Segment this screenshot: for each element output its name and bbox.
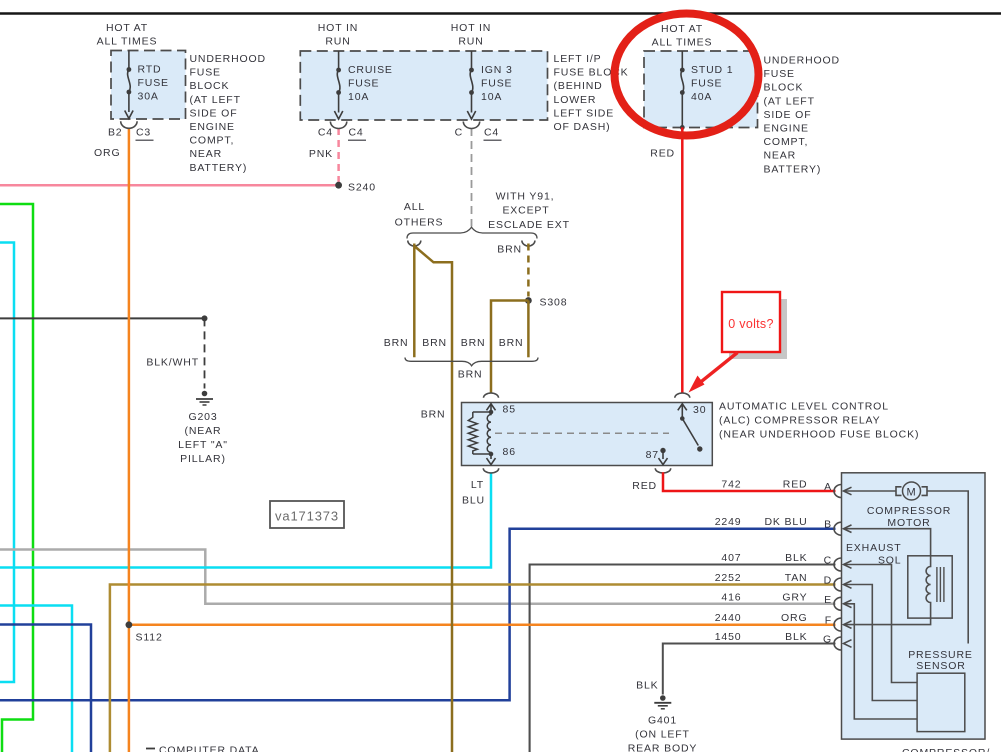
compressor pin D connector xyxy=(834,578,841,591)
wire BRN dashed to S308 xyxy=(527,244,530,297)
connector C4 / C4 xyxy=(330,122,346,129)
svg-text:HOT IN: HOT IN xyxy=(451,22,492,34)
svg-text:RED: RED xyxy=(650,148,675,160)
svg-text:86: 86 xyxy=(503,446,516,458)
svg-text:UNDERHOOD: UNDERHOOD xyxy=(764,55,841,67)
fuse block box UNDERHOOD left (RTD fuse) xyxy=(111,51,186,120)
svg-text:G203: G203 xyxy=(188,411,217,423)
brace split ALL OTHERS / WITH Y91 xyxy=(407,227,537,238)
connector C / C4 xyxy=(463,122,479,129)
wire dashed below IGN 3 fuse xyxy=(471,128,473,227)
svg-text:FUSE: FUSE xyxy=(190,67,221,79)
svg-text:BLK/WHT: BLK/WHT xyxy=(146,357,199,369)
connector arc below relay pin 86 xyxy=(483,468,498,473)
svg-text:742: 742 xyxy=(721,479,741,491)
svg-text:(NEAR UNDERHOOD FUSE BLOCK): (NEAR UNDERHOOD FUSE BLOCK) xyxy=(719,429,919,441)
svg-text:LEFT I/P: LEFT I/P xyxy=(554,53,602,65)
relay switch blade xyxy=(680,416,685,421)
svg-text:E: E xyxy=(824,594,832,606)
svg-text:EXCEPT: EXCEPT xyxy=(502,205,549,217)
compressor box xyxy=(842,473,986,739)
svg-text:DK BLU: DK BLU xyxy=(764,516,807,528)
svg-text:IGN 3: IGN 3 xyxy=(481,64,513,76)
svg-text:B: B xyxy=(824,519,832,531)
svg-text:RED: RED xyxy=(632,480,657,492)
wire ORG main vertical from fuse RTD xyxy=(128,128,131,752)
wire RED 742 from relay pin 87 to compressor pin A xyxy=(663,472,836,491)
svg-text:OF DASH): OF DASH) xyxy=(554,121,611,133)
svg-text:BRN: BRN xyxy=(461,337,486,349)
exhaust solenoid coil xyxy=(926,556,930,618)
svg-text:ALL: ALL xyxy=(404,201,425,213)
svg-text:COMPT,: COMPT, xyxy=(190,135,235,147)
relay box ALC compressor relay xyxy=(462,403,713,466)
node S240 xyxy=(335,182,342,189)
svg-text:(ALC) COMPRESSOR RELAY: (ALC) COMPRESSOR RELAY xyxy=(719,415,880,427)
relay linkage dashed xyxy=(495,432,669,434)
relay pin 87 xyxy=(660,448,665,453)
wire RED from STUD 1 fuse to relay pin 30 xyxy=(681,127,684,393)
svg-text:EXHAUST: EXHAUST xyxy=(846,542,902,554)
svg-text:OTHERS: OTHERS xyxy=(395,217,444,229)
node dot BLK/G203 xyxy=(202,315,208,321)
exhaust solenoid box xyxy=(908,556,952,618)
svg-text:COMPRESSOR: COMPRESSOR xyxy=(867,505,951,517)
fuse CRUISE FUSE 10A xyxy=(338,51,340,70)
connector arc ALL OTHERS branch xyxy=(408,241,421,247)
svg-text:BLOCK: BLOCK xyxy=(190,80,230,92)
svg-text:BRN: BRN xyxy=(421,409,446,421)
compressor pin A connector xyxy=(834,485,841,498)
svg-text:2249: 2249 xyxy=(715,516,742,528)
svg-text:40A: 40A xyxy=(691,91,712,103)
svg-text:SIDE OF: SIDE OF xyxy=(764,109,812,121)
red highlight circle around STUD 1 fuse xyxy=(615,14,759,136)
svg-text:BATTERY): BATTERY) xyxy=(190,162,248,174)
svg-text:D: D xyxy=(824,575,832,587)
svg-text:BRN: BRN xyxy=(384,337,409,349)
svg-text:HOT IN: HOT IN xyxy=(318,22,359,34)
svg-text:M: M xyxy=(906,486,916,498)
annotation arrow to relay pin 30 xyxy=(697,353,738,386)
svg-text:87: 87 xyxy=(646,449,659,461)
svg-text:MOTOR: MOTOR xyxy=(887,517,930,529)
svg-text:C4: C4 xyxy=(349,127,364,139)
svg-text:BRN: BRN xyxy=(497,244,522,256)
fuse block box UNDERHOOD right (STUD 1 fuse) xyxy=(644,51,758,128)
svg-text:LEFT "A": LEFT "A" xyxy=(178,439,228,451)
svg-text:BRN: BRN xyxy=(458,369,483,381)
wire BRN S308 branch to relay pin 85 xyxy=(491,301,528,394)
svg-text:UNDERHOOD: UNDERHOOD xyxy=(190,53,267,65)
relay coil with resistor xyxy=(489,410,494,415)
wire GRN left loop xyxy=(0,204,33,752)
svg-text:ALL TIMES: ALL TIMES xyxy=(652,37,713,49)
wire CYAN lower left xyxy=(0,606,72,752)
wire pin B to exhaust solenoid xyxy=(844,529,931,556)
svg-text:A: A xyxy=(824,481,832,493)
svg-text:2252: 2252 xyxy=(715,572,742,584)
label COMPUTER DATA (bottom, clipped) xyxy=(146,748,155,750)
svg-text:HOT AT: HOT AT xyxy=(661,23,703,35)
wire BRN below S308 xyxy=(527,301,530,358)
connector arc below relay pin 87 xyxy=(655,468,670,473)
svg-text:2440: 2440 xyxy=(715,612,742,624)
brace merge BRN xyxy=(405,358,538,366)
svg-text:FUSE: FUSE xyxy=(691,78,722,90)
svg-text:10A: 10A xyxy=(348,91,369,103)
frame top border xyxy=(0,12,1001,15)
svg-text:SIDE OF: SIDE OF xyxy=(190,107,238,119)
wire pin C to pressure sensor xyxy=(844,565,917,683)
stamp box va171373 xyxy=(270,501,344,528)
svg-text:BATTERY): BATTERY) xyxy=(764,163,822,175)
svg-text:F: F xyxy=(825,615,832,627)
svg-text:BRN: BRN xyxy=(422,337,447,349)
svg-text:REAR BODY: REAR BODY xyxy=(628,743,698,752)
node S112 xyxy=(125,621,132,628)
svg-text:AUTOMATIC LEVEL CONTROL: AUTOMATIC LEVEL CONTROL xyxy=(719,401,889,413)
svg-text:ALL TIMES: ALL TIMES xyxy=(97,36,158,48)
svg-text:BLOCK: BLOCK xyxy=(764,82,804,94)
wire BLK/WHT dashed to G203 xyxy=(204,318,206,388)
svg-text:BLK: BLK xyxy=(785,631,807,643)
svg-text:G401: G401 xyxy=(648,715,677,727)
svg-text:COMPRESSOR/: COMPRESSOR/ xyxy=(902,747,990,752)
svg-text:30: 30 xyxy=(693,404,706,416)
wire BLK to G203 junction xyxy=(0,317,205,319)
svg-text:(ON LEFT: (ON LEFT xyxy=(635,729,690,741)
wire PNK dashed below CRUISE fuse xyxy=(337,128,340,183)
svg-text:RUN: RUN xyxy=(458,36,483,48)
relay pin 30 arrow xyxy=(681,404,683,417)
svg-text:C4: C4 xyxy=(484,127,499,139)
wire DK BLU left lower xyxy=(0,625,91,752)
connector arc WITH Y91 branch xyxy=(522,241,535,247)
relay pin 86 arrow xyxy=(490,454,492,459)
wire LT BLU from relay pin 86 to left edge xyxy=(0,472,491,567)
svg-text:ESCLADE EXT: ESCLADE EXT xyxy=(488,219,570,231)
svg-text:416: 416 xyxy=(721,591,741,603)
connector arc relay pin 30 xyxy=(675,393,690,398)
annotation box 0 volts? xyxy=(729,299,787,359)
wire motor to pin G xyxy=(928,491,969,644)
svg-text:ORG: ORG xyxy=(781,612,807,624)
svg-text:C: C xyxy=(824,555,832,567)
wire BRN all-others vertical 1 xyxy=(413,244,416,358)
fuse STUD 1 FUSE 40A xyxy=(681,51,683,70)
relay pin 85 arrow xyxy=(490,404,492,411)
svg-text:S112: S112 xyxy=(136,632,163,644)
svg-text:B2: B2 xyxy=(108,127,123,139)
wire solenoid to pin F xyxy=(844,618,931,625)
compressor pin B connector xyxy=(834,522,841,535)
ground G203 xyxy=(202,391,208,397)
svg-text:407: 407 xyxy=(721,552,741,564)
svg-text:RED: RED xyxy=(783,479,808,491)
wire GRY 416 from left edge to compressor pin E xyxy=(0,550,836,604)
wire pin E to pressure sensor xyxy=(844,604,917,719)
svg-text:1450: 1450 xyxy=(715,631,742,643)
svg-text:(AT LEFT: (AT LEFT xyxy=(190,94,241,106)
svg-text:30A: 30A xyxy=(138,91,159,103)
wire pin D to pressure sensor xyxy=(844,585,917,701)
svg-text:LT: LT xyxy=(471,479,484,491)
svg-text:BLK: BLK xyxy=(636,680,658,692)
svg-text:WITH Y91,: WITH Y91, xyxy=(496,191,555,203)
svg-text:0 volts?: 0 volts? xyxy=(728,317,773,331)
svg-text:NEAR: NEAR xyxy=(190,148,223,160)
svg-text:C3: C3 xyxy=(136,127,151,139)
compressor pin C connector xyxy=(834,558,841,571)
svg-text:COMPUTER DATA: COMPUTER DATA xyxy=(159,745,260,752)
compressor motor M symbol xyxy=(903,482,921,500)
svg-text:CRUISE: CRUISE xyxy=(348,64,393,76)
svg-text:ORG: ORG xyxy=(94,147,120,159)
svg-text:(NEAR: (NEAR xyxy=(185,425,222,437)
ground G401 xyxy=(660,695,666,701)
compressor pin G connector xyxy=(834,637,841,650)
svg-text:GRY: GRY xyxy=(782,591,807,603)
svg-text:BLK: BLK xyxy=(785,552,807,564)
svg-text:85: 85 xyxy=(503,404,516,416)
svg-text:SENSOR: SENSOR xyxy=(916,660,965,672)
svg-text:S240: S240 xyxy=(348,182,376,194)
svg-text:COMPT,: COMPT, xyxy=(764,136,809,148)
svg-text:(BEHIND: (BEHIND xyxy=(554,80,603,92)
svg-text:FUSE: FUSE xyxy=(481,78,512,90)
svg-text:va171373: va171373 xyxy=(275,509,339,524)
svg-text:C4: C4 xyxy=(318,127,333,139)
connector arc relay pin 85 xyxy=(484,393,499,398)
svg-text:BLU: BLU xyxy=(462,495,485,507)
svg-text:FUSE: FUSE xyxy=(764,68,795,80)
svg-text:C: C xyxy=(455,127,463,139)
wire ORG 2440 branch to compressor pin F xyxy=(129,624,836,627)
wire motor to pin A xyxy=(844,490,896,492)
svg-text:(AT LEFT: (AT LEFT xyxy=(764,95,815,107)
fuse IGN 3 FUSE 10A xyxy=(471,51,473,70)
svg-text:ENGINE: ENGINE xyxy=(190,121,235,133)
fuse RTD FUSE 30A xyxy=(128,51,130,70)
wire DK BLU 2249 from compressor pin B xyxy=(0,529,836,701)
connector B2 / C3 xyxy=(121,121,137,128)
svg-text:PILLAR): PILLAR) xyxy=(180,453,226,465)
svg-text:10A: 10A xyxy=(481,91,502,103)
node S308 xyxy=(525,297,532,304)
svg-text:FUSE: FUSE xyxy=(348,78,379,90)
svg-text:FUSE: FUSE xyxy=(138,77,169,89)
svg-text:TAN: TAN xyxy=(785,572,808,584)
svg-text:S308: S308 xyxy=(540,297,568,309)
pressure sensor box xyxy=(917,673,965,731)
svg-text:LEFT SIDE: LEFT SIDE xyxy=(554,107,615,119)
svg-text:ENGINE: ENGINE xyxy=(764,123,809,135)
compressor pin E connector xyxy=(834,597,841,610)
svg-text:HOT AT: HOT AT xyxy=(106,22,148,34)
fuse block box LEFT I/P (CRUISE + IGN 3 fuses) xyxy=(300,51,547,120)
wire BLK 407 from compressor pin C xyxy=(530,565,836,752)
wire BRN all-others branch 2 (diagonal) xyxy=(414,246,452,752)
svg-text:RTD: RTD xyxy=(138,64,162,76)
svg-text:LOWER: LOWER xyxy=(554,94,597,106)
wire CYAN left upper loop xyxy=(0,243,14,683)
wire BLK 1450 from compressor pin G to G401 xyxy=(663,644,836,695)
wire TAN 2252 from compressor pin D xyxy=(110,585,836,752)
svg-text:PNK: PNK xyxy=(309,148,333,160)
svg-text:NEAR: NEAR xyxy=(764,150,797,162)
compressor pin F connector xyxy=(834,618,841,631)
svg-text:RUN: RUN xyxy=(325,36,350,48)
wire PNK horizontal to S240 xyxy=(0,184,339,187)
svg-text:BRN: BRN xyxy=(499,337,524,349)
svg-text:STUD 1: STUD 1 xyxy=(691,64,733,76)
